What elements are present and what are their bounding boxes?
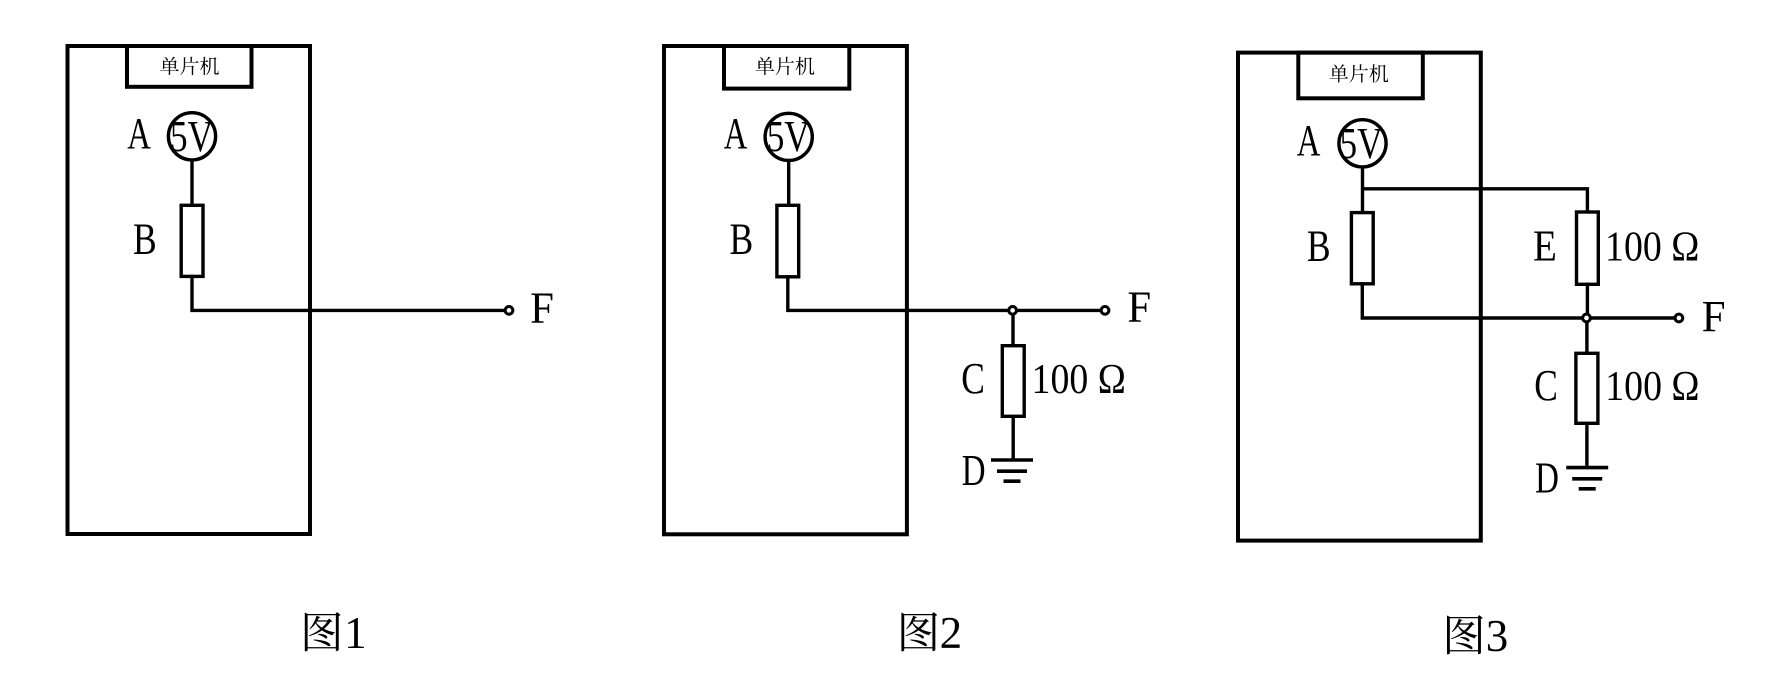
svg-text:C: C: [961, 354, 985, 403]
resistor B (figure 1): [181, 205, 203, 276]
5V source circle (figure 1): [168, 113, 215, 160]
junction node (figure 2): [1009, 307, 1017, 315]
svg-text:100 Ω: 100 Ω: [1605, 224, 1699, 270]
resistor B (figure 2): [777, 205, 799, 276]
MCU label box (figure 1): [127, 46, 252, 87]
wire resistor B to terminal F (figure 1): [192, 275, 506, 311]
wire 5V to resistor B (figure 2): [787, 160, 790, 206]
terminal F (figure 2): [1101, 307, 1109, 315]
svg-text:A: A: [1297, 116, 1321, 165]
terminal F (figure 3): [1675, 314, 1683, 322]
svg-text:F: F: [1702, 292, 1726, 341]
svg-text:D: D: [1535, 454, 1559, 503]
svg-text:5V: 5V: [170, 112, 213, 161]
MCU box (figure 1): [68, 46, 311, 534]
wire resistor E to junction (figure 3): [1586, 283, 1589, 318]
wire junction to resistor C (figure 3): [1585, 322, 1588, 355]
wire resistor C to ground (figure 3): [1585, 423, 1588, 467]
caption 图3: [1447, 611, 1508, 661]
svg-text:A: A: [127, 109, 151, 158]
label 单片机 (figure 3): [1330, 64, 1389, 82]
svg-text:3: 3: [1486, 611, 1509, 661]
ground D (figure 2): [991, 460, 1033, 481]
resistor C (figure 3): [1576, 353, 1598, 423]
svg-text:F: F: [530, 284, 554, 333]
wire resistor B to terminal F (figure 2): [788, 275, 1102, 310]
MCU box (figure 3): [1238, 53, 1481, 541]
5V source circle (figure 3): [1339, 120, 1386, 167]
resistor B (figure 3): [1351, 213, 1373, 284]
5V source circle (figure 2): [765, 113, 812, 160]
svg-text:2: 2: [940, 608, 963, 658]
wire resistor B to terminal F (figure 3): [1362, 282, 1676, 318]
svg-text:5V: 5V: [767, 112, 810, 161]
svg-text:A: A: [724, 109, 748, 158]
caption 图1: [305, 608, 367, 658]
MCU label box (figure 2): [724, 46, 849, 89]
svg-text:100 Ω: 100 Ω: [1605, 364, 1699, 410]
wire resistor C to ground (figure 2): [1012, 416, 1015, 460]
svg-text:B: B: [730, 215, 754, 264]
svg-text:5V: 5V: [1340, 119, 1383, 168]
MCU box (figure 2): [664, 46, 907, 534]
svg-text:D: D: [962, 446, 986, 495]
resistor C (figure 2): [1002, 346, 1024, 417]
wire branch to resistor E (figure 3): [1363, 189, 1588, 213]
wire 5V to resistor B (figure 3): [1361, 167, 1364, 214]
svg-text:1: 1: [344, 608, 367, 658]
MCU label box (figure 3): [1298, 53, 1423, 99]
svg-text:C: C: [1534, 361, 1558, 410]
resistor E (figure 3): [1577, 212, 1599, 284]
label 单片机 (figure 1): [160, 57, 219, 75]
svg-text:E: E: [1533, 221, 1557, 270]
caption 图2: [901, 608, 962, 658]
svg-text:B: B: [1307, 222, 1331, 271]
label 单片机 (figure 2): [756, 57, 815, 75]
wire 5V to resistor B (figure 1): [190, 160, 193, 206]
svg-text:100 Ω: 100 Ω: [1032, 357, 1126, 403]
svg-text:F: F: [1127, 283, 1151, 332]
svg-text:B: B: [133, 215, 157, 264]
junction node (figure 3): [1583, 314, 1591, 322]
wire junction to resistor C (figure 2): [1011, 314, 1014, 347]
ground D (figure 3): [1566, 468, 1608, 489]
terminal F (figure 1): [505, 307, 513, 315]
